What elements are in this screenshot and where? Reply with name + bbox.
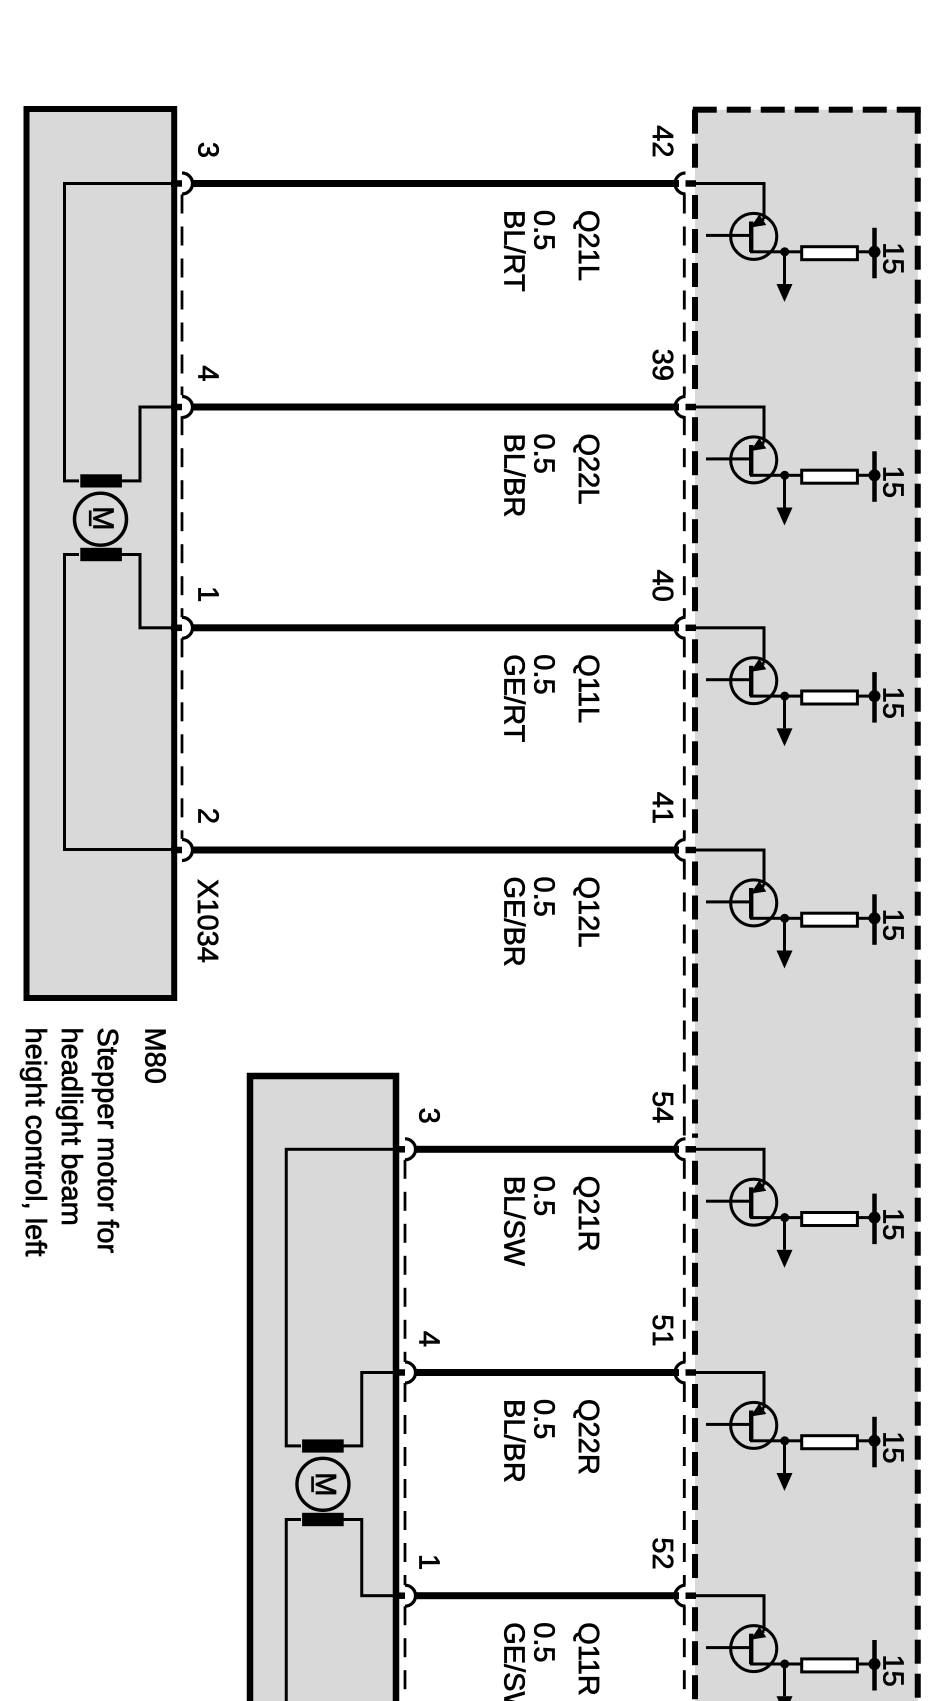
svg-text:Q11R: Q11R bbox=[572, 1622, 604, 1696]
svg-text:Q21R: Q21R bbox=[572, 1176, 604, 1252]
svg-text:0.5: 0.5 bbox=[528, 877, 560, 917]
svg-text:BL/SW: BL/SW bbox=[498, 1176, 530, 1267]
svg-text:GE/RT: GE/RT bbox=[498, 654, 530, 742]
svg-text:height control, left: height control, left bbox=[19, 1028, 51, 1257]
svg-text:0.5: 0.5 bbox=[528, 434, 560, 474]
svg-text:3: 3 bbox=[192, 142, 224, 158]
svg-text:Q21L: Q21L bbox=[572, 210, 604, 281]
svg-text:M80: M80 bbox=[139, 1028, 171, 1084]
svg-text:0.5: 0.5 bbox=[528, 210, 560, 250]
svg-text:Q22L: Q22L bbox=[572, 434, 604, 505]
svg-text:2: 2 bbox=[192, 808, 224, 824]
svg-text:0.5: 0.5 bbox=[528, 1399, 560, 1439]
svg-text:Q22R: Q22R bbox=[572, 1399, 604, 1475]
svg-text:X1034: X1034 bbox=[191, 879, 223, 963]
svg-text:40: 40 bbox=[646, 570, 678, 602]
svg-text:39: 39 bbox=[646, 349, 678, 381]
svg-text:Q12L: Q12L bbox=[572, 877, 604, 948]
svg-text:BL/RT: BL/RT bbox=[498, 210, 530, 292]
svg-text:52: 52 bbox=[646, 1537, 678, 1569]
svg-text:Stepper motor for: Stepper motor for bbox=[91, 1028, 123, 1254]
svg-text:0.5: 0.5 bbox=[528, 1176, 560, 1216]
svg-text:4: 4 bbox=[192, 365, 224, 381]
svg-text:42: 42 bbox=[646, 125, 678, 157]
svg-text:41: 41 bbox=[646, 792, 678, 824]
svg-text:1: 1 bbox=[413, 1554, 445, 1570]
svg-text:54: 54 bbox=[646, 1091, 678, 1123]
svg-text:0.5: 0.5 bbox=[528, 654, 560, 694]
svg-text:4: 4 bbox=[413, 1331, 445, 1347]
svg-text:headlight beam: headlight beam bbox=[55, 1028, 87, 1226]
svg-text:GE/SW: GE/SW bbox=[498, 1622, 530, 1701]
svg-text:51: 51 bbox=[646, 1314, 678, 1346]
svg-text:0.5: 0.5 bbox=[528, 1622, 560, 1662]
svg-text:1: 1 bbox=[192, 586, 224, 602]
svg-text:Q11L: Q11L bbox=[572, 654, 604, 723]
svg-text:BL/BR: BL/BR bbox=[498, 1399, 530, 1483]
svg-text:BL/BR: BL/BR bbox=[498, 434, 530, 518]
svg-text:3: 3 bbox=[413, 1108, 445, 1124]
svg-text:GE/BR: GE/BR bbox=[498, 877, 530, 967]
